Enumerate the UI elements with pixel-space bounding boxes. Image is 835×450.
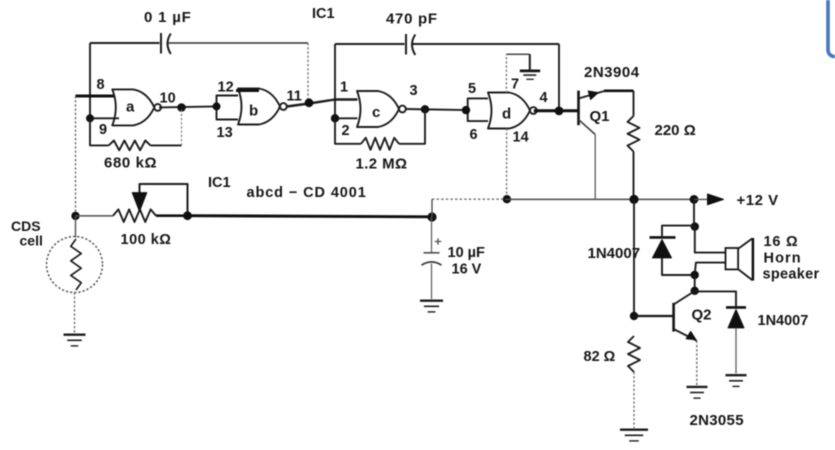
wire filter node riser to rail (431, 199, 433, 217)
wire CDS top lead (faint) (75, 216, 77, 238)
svg-text:8: 8 (97, 77, 105, 93)
transistor Q2 emitter lead (674, 329, 697, 341)
svg-text:IC1: IC1 (208, 175, 231, 191)
resistor R3 220 Ohm top lead (633, 91, 635, 116)
svg-text:1N4007: 1N4007 (588, 245, 641, 262)
op-gate U1c NOR gate c of CD4001 (357, 91, 399, 127)
svg-text:1: 1 (340, 80, 348, 96)
wire C1 top right segment (168, 42, 308, 44)
wire C2 right drop to pin 4 node (558, 44, 560, 111)
svg-text:680 kΩ: 680 kΩ (104, 155, 157, 172)
node speaker branch top (691, 222, 699, 230)
wire pin 14 drop to +12V rail (faint) (506, 129, 508, 198)
wire to diode D2 (695, 291, 736, 306)
op-gate U1d NOR gate d of CD4001 (488, 93, 530, 129)
svg-text:220 Ω: 220 Ω (655, 122, 696, 139)
svg-text:82 Ω: 82 Ω (584, 349, 616, 365)
svg-text:12: 12 (218, 80, 234, 96)
wire pin 7 to ground (506, 53, 529, 55)
node gate b input junction (213, 102, 221, 110)
wire CDS bottom lead to ground (faint) (74, 293, 76, 334)
potentiometer R5 wiper bracket (140, 184, 188, 216)
capacitor C3 bottom lead (faint) (431, 264, 433, 300)
svg-text:IC1: IC1 (312, 6, 335, 22)
node pin 11 junction (305, 98, 314, 107)
transistor Q1 collector lead (579, 120, 596, 135)
wire R3 node down to Q2 base (633, 199, 635, 316)
svg-text:5: 5 (468, 81, 476, 97)
wire gate c output to gate d input (406, 109, 466, 110)
capacitor C3 plus sign (435, 241, 441, 243)
svg-text:470 pF: 470 pF (386, 11, 438, 28)
capacitor C3 bottom plate curved (422, 262, 442, 265)
node Q2 base junction (630, 312, 638, 320)
wire C1 right drop to pin 11 node (307, 43, 309, 102)
potentiometer R5 wiper arrow (132, 193, 147, 212)
speaker LS1 driver box (726, 248, 739, 269)
transistor Q2 collector lead (674, 291, 695, 305)
svg-text:100 kΩ: 100 kΩ (121, 232, 172, 248)
wire Q2 base lead (634, 315, 674, 317)
resistor R3 220 Ohm zigzag (628, 116, 640, 152)
node pin 14 on rail (503, 195, 511, 203)
node rail at +12V branch (690, 195, 699, 204)
resistor R4 82 Ohm zigzag (628, 336, 640, 372)
svg-text:16 Ω: 16 Ω (764, 234, 799, 250)
wire vertical from CDS cell node to pin 8 (75, 96, 77, 216)
svg-text:16 V: 16 V (452, 262, 482, 278)
resistor R2 right lead riser (399, 109, 425, 144)
ground at Q2 emitter (687, 386, 708, 388)
svg-text:3: 3 (410, 83, 418, 99)
node pot output junction (183, 211, 192, 220)
wire +12V arrow stub (694, 198, 708, 200)
ground at pin 7 (520, 70, 540, 73)
capacitor C2 470 pF (405, 34, 407, 55)
wire faint link from filter node to rail (432, 198, 505, 200)
diode D2 1N4007 body (728, 310, 744, 328)
wire Q2 emitter to ground (faint) (696, 341, 698, 386)
wire speaker minus terminal (695, 263, 726, 275)
node pin 9 junction (86, 114, 94, 122)
svg-text:11: 11 (287, 89, 302, 105)
wire pin 12 thick stub (236, 89, 259, 92)
wire to speaker plus terminal (695, 227, 726, 253)
wire gate d output thick to Q1 base (534, 109, 579, 112)
svg-text:2N3055: 2N3055 (690, 412, 744, 429)
capacitor C3 top plate (424, 252, 440, 254)
potentiometer R5 100k zigzag (113, 209, 156, 222)
resistor R1 680 kOhm zigzag (109, 141, 151, 151)
wire +12V rail (505, 198, 694, 200)
svg-text:1.2 MΩ: 1.2 MΩ (356, 156, 408, 173)
svg-text:b: b (249, 103, 258, 120)
resistor R1 right lead (151, 144, 182, 146)
resistor R2 1.2 MOhm zigzag (361, 138, 399, 150)
svg-text:9: 9 (99, 122, 107, 138)
transistor Q1 emitter (top) lead (579, 91, 605, 98)
svg-text:10: 10 (160, 91, 176, 107)
node rail at R3 (629, 195, 638, 204)
diode D1 1N4007 cathode bar (650, 236, 676, 239)
op-gate U1a NOR gate a of CD4001 (112, 89, 154, 125)
node CDS cell top junction (71, 212, 79, 220)
svg-text:a: a (126, 99, 135, 116)
svg-text:7: 7 (511, 77, 519, 93)
resistor R2 1.2 MOhm left lead (335, 118, 361, 144)
wire C2 left drop to pin 2 (334, 44, 336, 118)
svg-text:abcd − CD 4001: abcd − CD 4001 (247, 185, 367, 201)
svg-text:0 1 µF: 0 1 µF (144, 9, 192, 26)
svg-text:+12 V: +12 V (737, 192, 779, 209)
photocell CDS circle (47, 237, 103, 293)
wire pin 2 stub (335, 117, 358, 119)
svg-text:6: 6 (470, 127, 478, 143)
transistor Q2 base bar (672, 303, 675, 332)
wire pin 8 thick stub (76, 95, 119, 98)
transistor Q2 emitter arrow (686, 331, 696, 339)
ground at R4 (620, 429, 648, 431)
node pin 10 junction (177, 103, 186, 112)
transistor Q1 base bar (577, 91, 580, 126)
svg-text:2: 2 (342, 123, 350, 139)
svg-text:4: 4 (540, 90, 548, 106)
diode D2 anode lead (faint) (735, 328, 737, 374)
svg-text:14: 14 (513, 130, 529, 146)
svg-text:c: c (372, 104, 380, 121)
resistor R3 bottom lead (633, 152, 635, 200)
svg-text:d: d (502, 106, 511, 123)
capacitor C3 10uF top lead (faint) (431, 217, 433, 252)
wire bracket to diode D1 (662, 226, 695, 237)
+12V arrow (708, 194, 724, 205)
node pin 3 junction (421, 105, 429, 113)
transistor Q1 emitter arrow (588, 91, 598, 100)
capacitor C1 0.1 uF (160, 33, 162, 54)
op-gate U1b NOR gate b of CD4001 (238, 89, 280, 125)
diode D2 1N4007 cathode bar (726, 306, 746, 309)
svg-text:10 µF: 10 µF (448, 245, 486, 261)
wire gate b tied-input bracket (217, 96, 239, 120)
wire speaker minus to Q2 collector node (694, 275, 696, 291)
node speaker minus junction (691, 271, 699, 279)
wire gate b output to gate c pin 1 (287, 100, 358, 107)
wire +12V down to speaker branch (693, 199, 695, 226)
svg-text:1N4007: 1N4007 (758, 313, 809, 329)
svg-text:Horn: Horn (764, 251, 802, 267)
ground at D2 (726, 374, 747, 376)
node filter cap junction (427, 212, 436, 221)
wire bottom rail thick to filter node (188, 216, 433, 217)
wire C2 top right segment (413, 43, 559, 45)
resistor R1 riser to output node (faint) (181, 108, 183, 146)
wire pin 9 stub (90, 117, 119, 119)
diode D1 anode lead (662, 258, 695, 275)
svg-text:13: 13 (217, 125, 233, 141)
wire pin 7 riser (faint) (505, 54, 507, 93)
resistor R1 680 kOhm feedback leads (90, 118, 109, 145)
svg-text:speaker: speaker (763, 267, 820, 283)
wire pot to rail thick (156, 214, 188, 217)
blue highlight box corner (page UI) (828, 0, 835, 57)
wire C1 left drop to pin 9 (89, 43, 91, 118)
wire CDS node to potentiometer (76, 215, 114, 217)
node Q2 collector junction (691, 287, 699, 295)
node pin 4 junction (555, 107, 564, 116)
svg-text:cell: cell (20, 233, 43, 249)
ground at C3 (420, 300, 443, 302)
wire gate d tied-input bracket (468, 98, 488, 121)
speaker LS1 cone (739, 238, 753, 248)
resistor R4 bottom lead (faint) (633, 372, 635, 428)
node pin 2 junction (331, 114, 339, 122)
photocell CDS internal zigzag (71, 239, 81, 290)
svg-text:2N3904: 2N3904 (584, 64, 640, 81)
ground at CDS cell (64, 334, 86, 336)
wire C2 top left segment (335, 43, 405, 45)
wire C1 top left segment (90, 42, 160, 44)
diode D1 1N4007 body (653, 240, 672, 258)
svg-text:Q1: Q1 (590, 108, 610, 125)
wire gate a output to gate b input (159, 106, 216, 107)
svg-text:Q2: Q2 (692, 307, 712, 324)
node gate d input junction (462, 106, 470, 114)
